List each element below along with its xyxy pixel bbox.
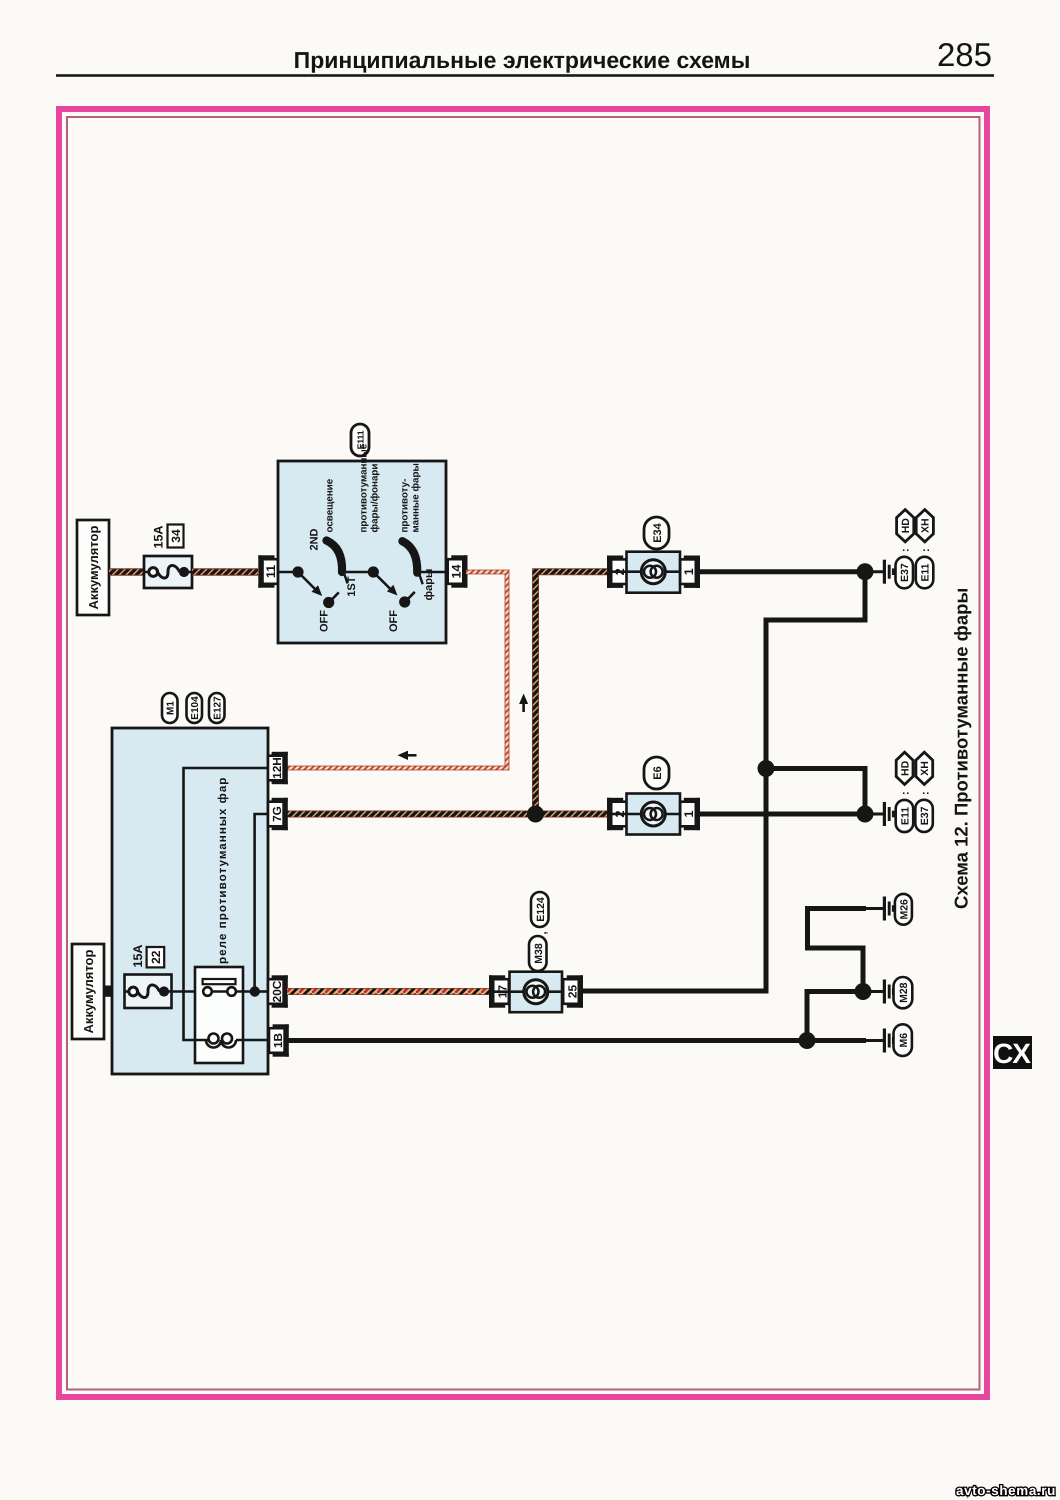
svg-text:освещение: освещение bbox=[325, 478, 336, 532]
M38 , E124 label ovals bbox=[529, 936, 547, 971]
relay coil bbox=[206, 1040, 236, 1048]
junction square at box edge bbox=[105, 986, 112, 997]
svg-text:XH: XH bbox=[919, 761, 931, 776]
battery 1 box bbox=[77, 520, 109, 615]
svg-text:реле противотуманных фар: реле противотуманных фар bbox=[216, 777, 229, 964]
svg-text:M28: M28 bbox=[898, 982, 910, 1003]
svg-text:12H: 12H bbox=[270, 757, 284, 779]
ground junction E6 bbox=[857, 806, 874, 823]
connector 12H bbox=[268, 752, 288, 784]
black bus E34/E6/M38 bbox=[583, 572, 865, 991]
wire 1B to ground M6 bbox=[288, 1038, 866, 1043]
lamp E34 connector 1 bbox=[680, 556, 700, 588]
connector 7G bbox=[268, 798, 288, 830]
svg-text:E6: E6 bbox=[652, 766, 664, 779]
wire branch to lamp E34 bbox=[536, 572, 608, 814]
M28 label oval bbox=[894, 977, 913, 1008]
E34 label oval bbox=[644, 517, 669, 549]
switch lever 1 (2ND) bbox=[327, 541, 343, 573]
svg-text:7G: 7G bbox=[270, 806, 284, 822]
E104 label oval bbox=[187, 693, 203, 723]
M1 label oval bbox=[162, 693, 178, 723]
connector 1B bbox=[269, 1024, 289, 1056]
switch lever 2 (fog) bbox=[402, 541, 417, 573]
svg-text:СХ: СХ bbox=[993, 1038, 1031, 1069]
ground junction E34 bbox=[857, 563, 874, 580]
svg-text:2ND: 2ND bbox=[308, 528, 320, 550]
ground labels E11:HD bbox=[896, 800, 914, 832]
OFF position dot 2 bbox=[399, 596, 410, 607]
lamp E6 assembly: connector 2 bbox=[607, 798, 627, 830]
svg-text:манные фары: манные фары bbox=[410, 463, 421, 532]
wire battery1 to fuse F34 bbox=[109, 568, 145, 575]
svg-text:E127: E127 bbox=[213, 696, 224, 720]
wire E34 to ground bbox=[700, 569, 865, 574]
svg-text:противотуманные: противотуманные bbox=[359, 443, 370, 532]
header rule bbox=[56, 74, 994, 77]
svg-text:E37: E37 bbox=[899, 563, 911, 582]
svg-text:E11: E11 bbox=[920, 563, 932, 581]
switch feed line segments bbox=[278, 571, 446, 574]
svg-text:HD: HD bbox=[899, 760, 911, 776]
wire fuse34 to pin 11 bbox=[192, 568, 258, 575]
lamp E6 bulb bbox=[641, 802, 665, 826]
svg-text:25: 25 bbox=[565, 985, 579, 999]
bus branch to E6 ground bbox=[766, 769, 865, 815]
CX logo box bbox=[993, 1036, 1032, 1069]
relay contact terminals bbox=[203, 987, 212, 996]
connector pin 11 bbox=[258, 555, 278, 587]
svg-text:M1: M1 bbox=[166, 701, 177, 715]
arrow on E34 branch wire bbox=[522, 701, 525, 712]
relay movable contact bar bbox=[203, 979, 236, 984]
E127 label oval bbox=[209, 693, 225, 723]
svg-text:22: 22 bbox=[149, 950, 163, 964]
svg-text::: : bbox=[920, 548, 932, 552]
OFF position dot 1 bbox=[323, 597, 334, 608]
lamp M38 box bbox=[510, 972, 563, 1013]
lamp M38 connector 25 bbox=[563, 975, 583, 1007]
svg-text:34: 34 bbox=[169, 529, 183, 543]
svg-text::: : bbox=[900, 791, 912, 795]
lamp E34 assembly: connector 2 bbox=[607, 556, 627, 588]
connector pin 14 bbox=[448, 555, 468, 587]
ground symbol M26 bbox=[866, 897, 893, 921]
junction node on M6 wire bbox=[799, 1032, 816, 1049]
svg-text:1ST: 1ST bbox=[346, 576, 358, 596]
svg-text:11: 11 bbox=[264, 565, 278, 578]
lamp E34 box bbox=[627, 552, 681, 593]
svg-text:XH: XH bbox=[920, 518, 932, 533]
ground labels E37:HD bbox=[896, 557, 914, 589]
arrow to OFF 1 bbox=[298, 572, 315, 589]
M6 label oval bbox=[894, 1024, 912, 1056]
svg-text:15A: 15A bbox=[131, 945, 145, 968]
junction node M28 bbox=[855, 983, 872, 1000]
ground symbol E37/E11 bbox=[866, 560, 893, 584]
wire to ground M28 bbox=[807, 992, 863, 1041]
svg-text:E37: E37 bbox=[919, 806, 931, 825]
lamp E6 connector 1 bbox=[680, 798, 700, 830]
wire pin14 to 12H (red hatch) bbox=[287, 572, 507, 768]
ground symbol E11/E37 bbox=[866, 802, 893, 826]
svg-text:Аккумулятор: Аккумулятор bbox=[86, 526, 101, 610]
relay contact line bbox=[212, 990, 255, 993]
svg-text:M38: M38 bbox=[533, 943, 545, 964]
connector 20C bbox=[268, 975, 288, 1007]
svg-text:фары: фары bbox=[423, 569, 435, 601]
wire 20C to lamp M38 bbox=[287, 988, 489, 995]
svg-text:Схема 12. Противотуманные фары: Схема 12. Противотуманные фары bbox=[951, 588, 972, 909]
svg-text:285: 285 bbox=[937, 36, 992, 73]
arrow to OFF 2 bbox=[373, 572, 390, 589]
switch box E111 bbox=[278, 461, 446, 643]
svg-text:1: 1 bbox=[682, 568, 696, 575]
svg-text:E34: E34 bbox=[652, 522, 664, 542]
svg-text:Принципиальные электрические с: Принципиальные электрические схемы bbox=[294, 47, 751, 73]
svg-text::: : bbox=[919, 791, 931, 795]
wire 7G to relay output bbox=[255, 814, 269, 990]
ground labels E37:XH bbox=[915, 800, 933, 832]
arrow on 12H wire bbox=[405, 754, 417, 757]
svg-text:20C: 20C bbox=[270, 980, 284, 1002]
lamp E34 bulb bbox=[641, 560, 665, 584]
svg-text:M6: M6 bbox=[898, 1033, 910, 1048]
E6 label oval bbox=[644, 757, 669, 789]
svg-text:OFF: OFF bbox=[318, 610, 330, 632]
svg-text:15A: 15A bbox=[152, 526, 166, 549]
wire 12H to relay coil bbox=[184, 768, 270, 1040]
svg-text:HD: HD bbox=[900, 518, 912, 534]
ground symbol M28 bbox=[866, 980, 893, 1004]
bus junction node bbox=[758, 760, 775, 777]
fuse 15A/34 bbox=[144, 556, 192, 588]
feed stub battery2 bbox=[104, 990, 125, 993]
M26 label oval bbox=[895, 894, 912, 925]
svg-text::: : bbox=[900, 548, 912, 552]
lamp M38 connector 17 bbox=[489, 975, 509, 1007]
fuse 15A/22 bbox=[125, 975, 172, 1009]
ground symbol M6 bbox=[866, 1029, 893, 1053]
junction node on E6 wire bbox=[527, 806, 544, 823]
svg-text:Аккумулятор: Аккумулятор bbox=[81, 950, 96, 1034]
lamp E6 box bbox=[627, 794, 681, 835]
svg-text:M26: M26 bbox=[898, 899, 910, 920]
relay/fuse unit box M1/E104/E127 bbox=[112, 728, 268, 1074]
pink frame inner bbox=[67, 117, 980, 1390]
wire E6 to ground bbox=[700, 812, 865, 817]
switch contact dot 1 bbox=[292, 566, 303, 577]
relay of fog lamps box bbox=[195, 967, 243, 1063]
wire 7G to lamp E6 bbox=[287, 811, 607, 818]
switch contact dot 2 bbox=[368, 566, 379, 577]
lamp M38 bulb bbox=[524, 980, 548, 1004]
svg-text:OFF: OFF bbox=[388, 610, 400, 632]
svg-text:14: 14 bbox=[450, 565, 464, 579]
svg-text:E11: E11 bbox=[899, 807, 911, 825]
svg-text:avto-shema.ru: avto-shema.ru bbox=[956, 1483, 1056, 1498]
pink frame outer bbox=[59, 109, 987, 1397]
line fuse22 to relay bbox=[172, 990, 204, 993]
svg-text:противоту-: противоту- bbox=[400, 479, 411, 533]
battery 2 box bbox=[72, 944, 104, 1039]
wire to ground M26 bbox=[808, 909, 867, 992]
svg-text:E124: E124 bbox=[535, 897, 547, 922]
svg-text:1B: 1B bbox=[271, 1033, 285, 1048]
svg-text:1: 1 bbox=[682, 810, 696, 817]
ground labels E11:XH bbox=[916, 557, 934, 589]
E111 label oval bbox=[351, 424, 369, 456]
relay output junction bbox=[250, 986, 260, 996]
svg-text:E104: E104 bbox=[190, 696, 201, 720]
svg-text:фары/фонари: фары/фонари bbox=[369, 464, 380, 533]
svg-text:,: , bbox=[537, 931, 549, 934]
